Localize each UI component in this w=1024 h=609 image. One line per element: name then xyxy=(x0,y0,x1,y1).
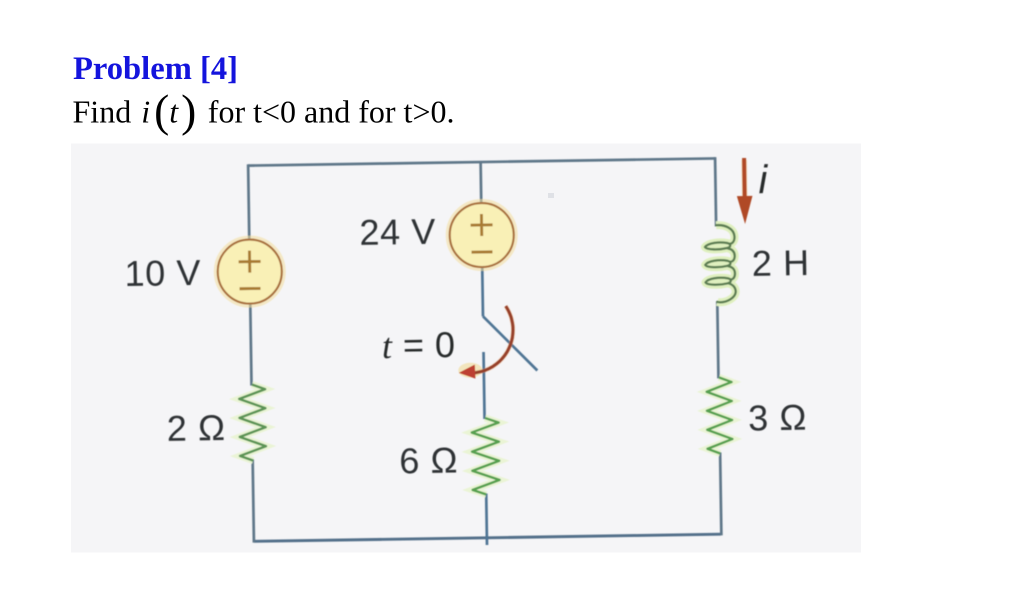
resistor R2 6ohm halo xyxy=(472,418,500,495)
voltage source V2 halo xyxy=(448,201,516,269)
wire middle upper xyxy=(479,162,482,204)
V1 plus xyxy=(238,250,260,272)
wire switch lower terminal xyxy=(484,352,485,419)
wire bottom xyxy=(254,534,721,541)
switch arc t=0 xyxy=(471,306,514,373)
wire right middle xyxy=(717,301,718,378)
svg-text:3 Ω: 3 Ω xyxy=(748,397,807,439)
wire middle lower xyxy=(485,493,488,544)
switch arc arrowhead xyxy=(459,365,476,379)
current arrow halo xyxy=(741,160,748,196)
wire right upper xyxy=(715,157,716,226)
scan speck xyxy=(548,193,554,198)
resistor R3 3ohm halo xyxy=(706,377,732,453)
resistor R2 6ohm xyxy=(472,418,500,495)
switch arc yellow halo xyxy=(458,363,482,378)
switch blade xyxy=(483,315,537,371)
wire left middle xyxy=(250,303,251,386)
svg-text:24 V: 24 V xyxy=(359,211,436,253)
switch arc halo xyxy=(471,306,514,373)
svg-text:2 H: 2 H xyxy=(751,242,809,284)
wire top xyxy=(248,158,715,165)
V2 minus xyxy=(471,250,492,253)
voltage source V1 10V xyxy=(217,239,282,304)
svg-text:t = 0: t = 0 xyxy=(382,324,456,366)
resistor R1 2ohm xyxy=(239,384,266,460)
svg-text:2 Ω: 2 Ω xyxy=(166,407,225,449)
V2 plus xyxy=(470,214,492,236)
svg-text:Problem [4]: Problem [4] xyxy=(73,51,238,87)
svg-text:Findi(t) for t<0 and for t>0.: Findi(t) for t<0 and for t>0. xyxy=(73,85,455,136)
voltage source V2 24V xyxy=(449,203,514,268)
resistor R3 3ohm xyxy=(706,377,732,453)
svg-text:10 V: 10 V xyxy=(124,252,201,294)
wire right lower xyxy=(720,452,721,535)
inductor L1 coil xyxy=(705,225,736,303)
current arrow head xyxy=(737,196,753,224)
wire left lower xyxy=(253,460,254,543)
wire middle below source xyxy=(481,266,484,316)
svg-text:6 Ω: 6 Ω xyxy=(399,439,458,481)
V1 minus xyxy=(240,287,261,290)
scan background xyxy=(71,144,861,553)
current arrow shaft xyxy=(742,158,747,199)
wire left upper xyxy=(248,164,249,240)
voltage source V1 halo xyxy=(216,238,284,306)
resistor R1 2ohm halo xyxy=(239,384,266,460)
inductor L1 fill halo xyxy=(705,225,736,303)
